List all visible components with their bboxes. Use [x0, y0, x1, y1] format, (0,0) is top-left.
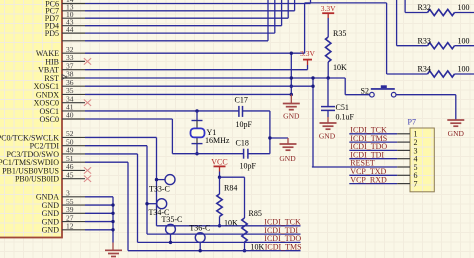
junction T35 on TDO row: [169, 241, 172, 244]
wire OSC1 row: [85, 110, 239, 112]
junction GND bus y229.8: [111, 228, 114, 231]
svg-text:40: 40: [66, 111, 74, 120]
capacitor C17: [239, 106, 243, 117]
svg-text:PB0/USB0ID: PB0/USB0ID: [15, 175, 59, 184]
pin 10 PD7: [45, 10, 85, 23]
svg-text:45: 45: [66, 170, 74, 179]
wire vertical RESET net: [312, 78, 314, 167]
wire GND pin row y229.8: [85, 229, 113, 231]
svg-text:10K: 10K: [333, 63, 347, 72]
P7 pin 6 VCP_TXD: [349, 167, 417, 180]
wire bridge top: [305, 2, 387, 4]
no-connect X pin 45 PB0: [84, 176, 91, 182]
svg-text:100: 100: [458, 3, 470, 12]
pin 36 XOSC1: [34, 78, 85, 91]
wire vertical C17-C18: [269, 111, 271, 154]
capacitor C18: [244, 149, 248, 159]
resistor R34: [428, 71, 455, 77]
wire PC6 row: [85, 3, 311, 5]
switch S2: [370, 85, 396, 97]
wire S2 down to ground: [455, 95, 457, 120]
test point T34-C: [147, 199, 167, 209]
no-connect X pin 46 PB1: [84, 167, 91, 173]
svg-text:OSC0: OSC0: [39, 115, 59, 124]
wire R85 bottom lead: [244, 242, 246, 251]
wire S2 right to GND corner: [396, 94, 456, 96]
P7 pin 4 ICDI_TDI: [349, 150, 417, 163]
RST pin input arrow: [62, 75, 67, 80]
P7 pin 7 VCP_RXD: [349, 175, 417, 188]
junction GND bus y221.55: [111, 220, 114, 223]
wire OSC0 down: [171, 119, 173, 154]
P7 pin 5 RESET: [312, 159, 418, 172]
test point T33-C: [157, 175, 176, 185]
wire RST to C51: [327, 78, 329, 106]
wire R35 top lead: [327, 18, 329, 37]
ground chip GND bus: [105, 250, 122, 256]
pin 51 PC1/TMS/SWDIO: [0, 154, 85, 167]
test point T35-C: [166, 224, 176, 242]
pin 13 PC7: [45, 3, 85, 16]
junction ground tap: [268, 136, 271, 139]
capacitor C51: [321, 107, 335, 111]
wire VCC to R85 branch: [220, 176, 245, 178]
wire R85 top lead: [244, 177, 246, 218]
no-connect X pin 34 XOSC0: [84, 100, 91, 106]
svg-text:7: 7: [414, 180, 418, 189]
wire GNDX row: [85, 93, 291, 95]
wire R32 vertical to top: [404, 0, 406, 13]
wire GND pin row y221.55: [85, 221, 113, 223]
pin 37 VBAT: [38, 61, 85, 74]
wire ICDI_TDI from pin: [85, 145, 147, 147]
svg-text:P7: P7: [408, 117, 416, 126]
wire PC6 vertical up: [310, 0, 312, 4]
wire C17 to right vertical: [243, 110, 270, 112]
svg-text:R32: R32: [418, 3, 431, 12]
wire RST down to S2: [344, 78, 346, 95]
wire ICDI_TDO bottom row: [138, 241, 301, 243]
svg-text:R84: R84: [224, 183, 237, 192]
wire R34 vertical to top: [386, 3, 388, 74]
junction T33 on TCK: [155, 178, 158, 181]
svg-text:R85: R85: [249, 209, 262, 218]
pin 40 OSC0: [39, 111, 85, 124]
pin 27 GND: [42, 213, 85, 226]
wire XOSC1 row: [85, 85, 313, 87]
wire R33 left lead: [397, 45, 428, 47]
svg-text:GND: GND: [42, 226, 60, 235]
wire R33 right lead: [455, 45, 474, 47]
ground stub chip GND: [112, 243, 114, 250]
pin 41 OSC1: [39, 103, 85, 116]
pin 45 PB0/USB0ID: [15, 170, 85, 183]
svg-text:T35-C: T35-C: [162, 215, 183, 224]
svg-text:C18: C18: [236, 139, 249, 148]
wire crystal bottom row: [172, 153, 243, 155]
junction R84 on ICDI_TCK: [218, 224, 221, 227]
wire VBAT row: [85, 69, 308, 71]
wire C18 to right vertical: [248, 153, 270, 155]
wire R34 right lead: [455, 73, 474, 75]
wire PC7 row: [85, 10, 295, 12]
pin 50 PC2/TDI: [30, 137, 85, 150]
junction WAKE branch: [290, 52, 293, 55]
wire PD7 vertical up: [287, 0, 289, 18]
pin 52 PC0/TCK/SWCLK: [0, 129, 85, 142]
microcontroller U1 body: [0, 0, 62, 238]
wire C51 bottom lead: [327, 110, 329, 117]
pin 34 XOSC0: [34, 94, 85, 107]
wire R84 bottom lead: [219, 217, 221, 226]
power bar 3.3V R35: [322, 12, 334, 14]
pin 39 GND: [42, 205, 85, 218]
wire PD7 row: [85, 17, 288, 19]
svg-text:GND: GND: [279, 154, 296, 163]
wire ICDI_TCK bottom row: [157, 225, 301, 227]
wire ICDI_TDI bottom row: [147, 233, 301, 235]
junction GND bus y205.05: [111, 203, 114, 206]
wire RST row: [85, 77, 345, 79]
resistor R35: [326, 37, 331, 62]
pin 44 PD5: [45, 25, 85, 38]
pin stub row F: [62, 40, 85, 42]
wire R35 bottom lead: [327, 62, 329, 78]
power stub VCC: [219, 166, 221, 171]
P7 pin 3 ICDI_TDO: [349, 142, 417, 155]
pin 55 GND: [42, 197, 85, 210]
svg-text:R34: R34: [418, 65, 431, 74]
wire vertical WAKE to GNDX node: [290, 53, 292, 94]
wire PC7 vertical up: [294, 0, 296, 11]
ground GNDX: [283, 104, 300, 110]
wire GND pin row y205.05: [85, 204, 113, 206]
svg-text:GND: GND: [319, 132, 336, 141]
ground C51: [320, 123, 337, 129]
pin 49 PC3/TDO/SWO: [7, 146, 85, 159]
wire 3.3V to VBAT: [307, 65, 309, 70]
junction GNDX end: [290, 93, 293, 96]
wire GND bus vertical: [112, 197, 114, 243]
junction crystal top: [195, 109, 198, 112]
resistor R84: [217, 194, 222, 217]
wire WAKE vertical up: [304, 3, 306, 53]
svg-text:12: 12: [66, 222, 74, 231]
junction R35/C51 on RST row: [327, 76, 330, 79]
wire to S2 left pin: [345, 94, 369, 96]
junction GND bus y213.3: [111, 212, 114, 215]
junction RST x WAKE-vertical: [290, 76, 293, 79]
wire PD5 vertical up: [274, 0, 276, 33]
wire ICDI_TCK from pin: [85, 136, 157, 138]
wire crystal bottom lead: [196, 144, 198, 154]
svg-text:C17: C17: [235, 96, 248, 105]
svg-text:3.3V: 3.3V: [321, 4, 336, 13]
ground C17C18: [280, 144, 297, 150]
wire row F vertical up: [267, 0, 269, 41]
power bar VCC: [214, 165, 226, 167]
svg-text:10pF: 10pF: [236, 120, 253, 129]
svg-text:44: 44: [66, 25, 74, 34]
ground stub C51: [327, 117, 329, 123]
wire ground tap: [270, 137, 288, 139]
svg-text:GND: GND: [283, 112, 300, 121]
ground stub GNDX: [290, 94, 292, 103]
ground S2: [447, 120, 464, 126]
svg-text:T33-C: T33-C: [149, 185, 170, 194]
P7 pin 2 ICDI_TMS: [349, 134, 417, 147]
resistor R32: [428, 9, 455, 15]
pin 35 GNDX: [36, 86, 85, 99]
svg-text:3.3V: 3.3V: [300, 49, 315, 58]
wire crystal top lead: [196, 111, 198, 120]
pin 33 HIB: [45, 53, 85, 66]
power stub 3.3V R35: [327, 13, 329, 18]
junction T36 on TMS row: [199, 249, 202, 252]
svg-text:ICDI_TMS: ICDI_TMS: [265, 243, 302, 252]
wire R33 vertical to top: [396, 0, 398, 46]
wire ICDI_TDI vertical: [146, 146, 148, 234]
pin 3 GNDA: [36, 189, 85, 202]
junction XOSC1 x WAKE-vertical: [290, 85, 293, 88]
pin 43 PD4: [45, 17, 85, 30]
svg-text:R35: R35: [333, 29, 346, 38]
pin 14 PC6: [45, 0, 85, 8]
resistor R33: [428, 43, 455, 49]
svg-text:C51: C51: [336, 103, 349, 112]
junction VCC node: [218, 176, 221, 179]
svg-text:T36-C: T36-C: [189, 223, 210, 232]
junction crystal bottom: [195, 152, 198, 155]
ground stub C17C18: [287, 138, 289, 144]
wire PD5 row: [85, 32, 275, 34]
power bar 3.3V VBAT: [303, 59, 312, 61]
power stub 3.3V VBAT: [307, 60, 309, 65]
wire R34 left lead: [387, 73, 428, 75]
svg-text:VCP_RXD: VCP_RXD: [350, 175, 387, 184]
wire ICDI_TMS vertical: [127, 162, 129, 251]
svg-text:10pF: 10pF: [240, 162, 257, 171]
wire row F: [85, 40, 268, 42]
wire VCC lead: [219, 172, 221, 178]
wire GND pin row y213.3: [85, 212, 113, 214]
wire OSC0 row: [85, 118, 172, 120]
test point T36-C: [195, 233, 205, 251]
junction XOSC1 end on RESET-vertical: [311, 85, 314, 88]
pin 38 RST: [44, 70, 85, 83]
svg-text:16MHz: 16MHz: [205, 136, 230, 145]
P7 pin 1 ICDI_TCK: [349, 126, 417, 139]
svg-text:R33: R33: [418, 36, 431, 45]
wire ICDI_TCK vertical: [156, 137, 158, 225]
wire R32 left lead: [405, 12, 427, 14]
svg-text:PD5: PD5: [45, 29, 59, 38]
wire PD4 row: [85, 25, 282, 27]
svg-text:S2: S2: [361, 86, 369, 95]
pin 32 WAKE: [36, 45, 85, 58]
svg-text:VCC: VCC: [211, 158, 227, 167]
wire R84 top lead: [219, 177, 221, 194]
junction T34 on TDI: [145, 202, 148, 205]
wire PD4 vertical up: [281, 0, 283, 26]
junction R85 on ICDI_TMS: [243, 249, 246, 252]
wire ICDI_TMS bottom row: [128, 250, 301, 252]
connector P7 body: [410, 128, 434, 192]
wire ICDI_TDO from pin: [85, 153, 138, 155]
wire ICDI_TMS from pin: [85, 161, 128, 163]
svg-text:GND: GND: [448, 129, 465, 138]
resistor R85: [242, 218, 247, 242]
svg-text:100: 100: [458, 65, 470, 74]
pin 12 GND: [42, 222, 85, 235]
wire WAKE row: [85, 52, 305, 54]
wire ICDI_TDO vertical: [137, 154, 139, 242]
wire R32 right lead: [455, 12, 474, 14]
svg-text:100: 100: [458, 36, 470, 45]
junction RST x RESET-vertical: [311, 76, 314, 79]
svg-text:0.1uF: 0.1uF: [336, 112, 355, 121]
wire GND pin row y196.8: [85, 196, 113, 198]
no-connect X pin 33 HIB: [84, 58, 91, 64]
pin 46 PB1/USB0VBUS: [2, 162, 85, 175]
